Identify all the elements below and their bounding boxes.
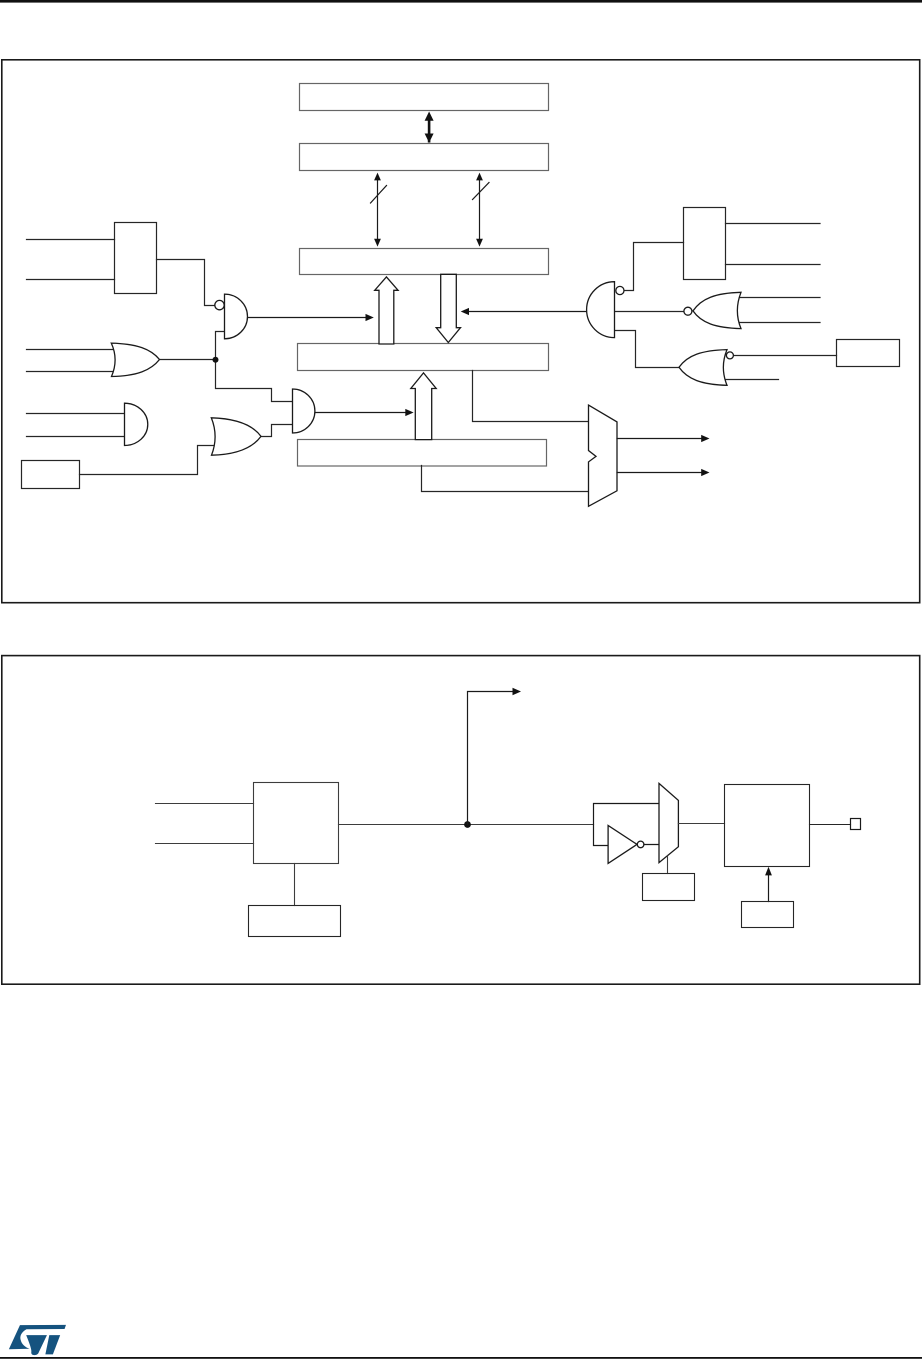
register bar B4 xyxy=(298,344,549,371)
arrow S5 up to S4 xyxy=(765,867,772,902)
arrow G1 output to hollow arrow A xyxy=(248,314,374,321)
wire G4 bottom input step to NOR2 output xyxy=(615,331,680,368)
bus width slash right xyxy=(473,183,490,200)
pad square P1 xyxy=(851,819,861,830)
and gate G2 xyxy=(125,403,148,445)
input wire to R1 upper xyxy=(27,239,115,241)
figure frame F1 xyxy=(2,60,920,603)
wire B5 bottom to MUX1 lower input xyxy=(422,466,589,492)
wire junction J2 up and right with arrow xyxy=(468,688,522,825)
input wire to S1 upper xyxy=(156,803,254,805)
rectangle R2 xyxy=(684,208,726,280)
wire NOR2 bubble to R3 xyxy=(733,355,836,357)
input wire NOR1 lower xyxy=(736,322,820,324)
register bar B3 xyxy=(300,249,549,275)
wire mux bottom to S3 xyxy=(667,856,669,874)
rectangle R1 xyxy=(115,223,157,294)
mirrored or gate NOR2 with inverted input xyxy=(679,350,733,386)
hollow arrow C up into B4 xyxy=(411,373,436,440)
wire S4 output to pad xyxy=(810,824,851,826)
bus arrow right between B2 and B3 xyxy=(473,173,490,247)
rectangle R3 xyxy=(837,340,900,367)
output wire R2 lower xyxy=(726,264,821,266)
and gate G1 with inverted input xyxy=(215,294,248,339)
wire mux output to S4 xyxy=(678,823,724,825)
register bar B2 xyxy=(300,144,549,171)
junction dot J2 xyxy=(464,821,471,828)
mirrored nor gate NOR1 xyxy=(684,292,741,328)
mux MUX1 xyxy=(589,405,618,506)
inverter U3 xyxy=(608,825,644,863)
block S4 xyxy=(725,785,810,867)
mux output arrow lower xyxy=(617,469,710,476)
junction dot J1 xyxy=(213,357,219,363)
header rule xyxy=(0,0,922,3)
and gate G3 xyxy=(293,389,315,433)
or gate OR1 xyxy=(111,343,159,376)
or gate OR2 xyxy=(211,418,261,455)
output wire R2 upper xyxy=(726,223,821,225)
input wire to G2 lower xyxy=(27,436,125,438)
input wire to OR1 upper xyxy=(27,349,115,351)
input wire to G2 upper xyxy=(27,413,125,415)
wire OR1 output to junction J1 xyxy=(160,359,216,361)
figure frame F2 xyxy=(2,656,920,985)
hollow arrow B down into B4 xyxy=(436,274,460,342)
rectangle R5 xyxy=(22,461,80,489)
input wire to S1 lower xyxy=(156,843,254,845)
bidirectional bus arrow between B1 and B2 xyxy=(425,112,434,143)
input wire NOR1 upper xyxy=(736,297,820,299)
mirrored and gate G4 with inverted input xyxy=(587,282,624,338)
wire junction J1 to G1 lower input xyxy=(216,332,225,360)
register bar B5 xyxy=(298,440,547,467)
block S1 xyxy=(254,783,339,864)
wire G4 middle input to NOR1 output bubble xyxy=(615,311,684,313)
register bar B1 xyxy=(300,84,549,111)
wire S1 bottom to S2 xyxy=(294,864,296,906)
wire S1 output to inverter split xyxy=(339,824,594,826)
wire OR2 output step to G3 lower input xyxy=(261,425,293,437)
bus width slash left xyxy=(371,186,387,204)
wire R1 output to G1 bubble xyxy=(157,260,215,306)
wire R5 output to OR2 lower input xyxy=(80,446,215,475)
hollow arrow A up into B3 xyxy=(375,277,398,344)
input wire to R1 lower xyxy=(27,279,115,281)
arrow G3 output to hollow arrow C xyxy=(315,409,414,416)
bus arrow left between B2 and B3 xyxy=(371,173,387,247)
input wire to OR1 lower xyxy=(27,371,115,373)
wire split to mux bypass and inverter input xyxy=(594,804,660,846)
input wire NOR2 lower xyxy=(722,379,779,381)
ST logo xyxy=(9,1325,66,1355)
mux output arrow upper xyxy=(617,435,710,442)
footer rule xyxy=(0,1357,922,1359)
mux MUX2 xyxy=(659,783,678,862)
arrow G4 output to hollow arrow B (pointing left) xyxy=(461,308,587,315)
wire inverter bubble to mux xyxy=(644,844,659,846)
block S5 xyxy=(742,902,794,928)
wire junction J1 step down to G3 upper input xyxy=(216,360,293,402)
wire G4 top bubble step to R2 xyxy=(624,243,684,291)
block S3 xyxy=(643,874,695,901)
block S2 xyxy=(249,906,341,937)
wire B4 bottom to MUX1 upper input xyxy=(473,371,589,422)
